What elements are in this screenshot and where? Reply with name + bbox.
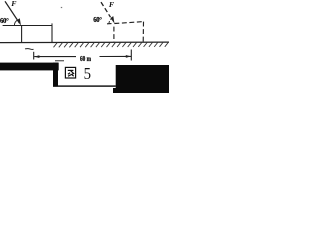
dimension left line <box>34 56 76 58</box>
dirt mark near left tick <box>25 48 34 51</box>
arrowhead (right) <box>110 16 114 24</box>
caption glyph tu (figure) <box>65 67 75 78</box>
bottom right black block <box>116 65 169 93</box>
black sliver under caption right <box>113 88 116 93</box>
dust speck <box>61 7 62 8</box>
caption box top stub <box>55 60 64 61</box>
ground hatching <box>54 42 169 47</box>
box (initial position) <box>3 26 52 43</box>
svg-text:F: F <box>11 0 17 8</box>
dimension right tick <box>130 50 132 61</box>
ground <box>0 41 169 44</box>
dashed box (final position) <box>107 22 144 43</box>
svg-text:60 m: 60 m <box>80 54 92 63</box>
svg-text:60°: 60° <box>93 17 102 24</box>
dimension left arrowhead <box>34 55 39 58</box>
caption box bottom border <box>53 85 116 86</box>
force F arrow dashed (right) <box>101 2 111 17</box>
dimension right line <box>100 55 132 57</box>
dimension left tick <box>33 52 35 60</box>
angle arc (left) <box>14 20 17 25</box>
svg-text:60°: 60° <box>0 18 9 25</box>
svg-text:F: F <box>109 0 115 9</box>
corner tick <box>51 23 53 25</box>
arrowhead <box>17 18 21 26</box>
force F arrow (left) <box>5 1 20 23</box>
angle arc dashed (right) <box>109 19 112 24</box>
dimension right arrowhead <box>126 55 131 58</box>
background <box>0 0 169 93</box>
caption box left border <box>53 63 58 87</box>
svg-text:5: 5 <box>84 64 91 83</box>
bottom left black bar <box>0 63 59 71</box>
